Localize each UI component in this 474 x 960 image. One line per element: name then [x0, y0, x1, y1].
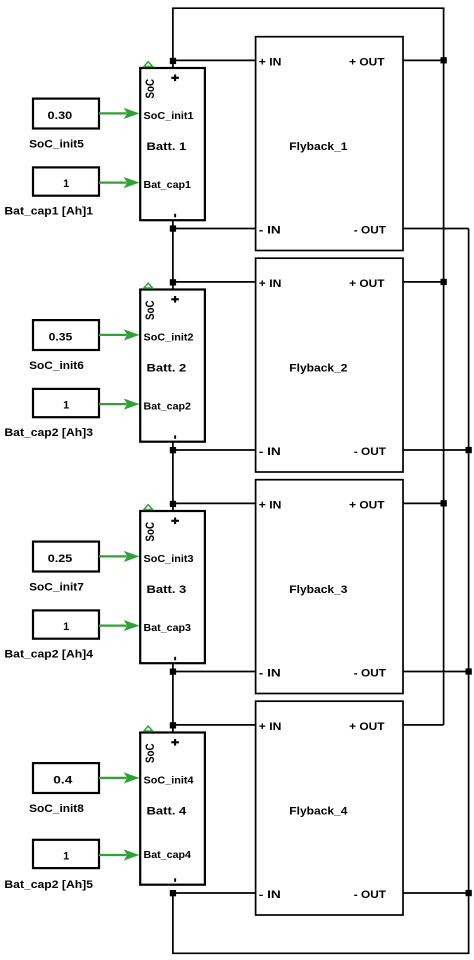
svg-text:- OUT: - OUT — [354, 889, 386, 901]
svg-text:SoC_init2: SoC_init2 — [144, 333, 194, 344]
wire: Flyback_4 - OUT to -bus — [403, 892, 469, 894]
wire: bottom net from battery stack - to -OUT bus — [172, 893, 469, 953]
svg-text:Flyback_2: Flyback_2 — [289, 363, 347, 375]
signal wire SoC_init6 to SoC_init2 — [99, 329, 140, 340]
wire: series link Batt. 2 - to next battery + — [172, 442, 174, 512]
wire: -OUT bus vertical — [468, 229, 470, 954]
svg-text:+ IN: + IN — [259, 721, 282, 733]
wire: Batt. 2 + node to Flyback_2 + IN — [173, 281, 256, 283]
Batt. 2 SoC output port (unconnected, green caret) — [144, 283, 153, 288]
wire: Flyback_1 - OUT to -bus — [403, 228, 469, 230]
signal wire SoC_init8 to SoC_init4 — [99, 772, 140, 783]
Batt. 4 - terminal label — [174, 878, 176, 882]
svg-text:SoC_init6: SoC_init6 — [29, 360, 84, 372]
svg-text:Bat_cap4: Bat_cap4 — [144, 850, 192, 861]
wire: Batt. 3 - node to Flyback_3 - IN — [173, 671, 256, 673]
battery block Batt. 4 — [140, 733, 205, 885]
svg-text:Flyback_4: Flyback_4 — [289, 806, 348, 818]
wire: series link Batt. 3 - to next battery + — [172, 663, 174, 733]
constant block Bat_cap1 [Ah]1 (value 1) — [33, 167, 99, 195]
Batt. 1 name label — [147, 141, 187, 153]
signal wire Bat_cap2 [Ah]5 to Bat_cap4 — [99, 849, 140, 860]
Flyback_3 pin label - IN — [259, 668, 281, 680]
wire: Flyback_2 - OUT to -bus — [403, 449, 469, 451]
Batt. 4 SoC pin label (rotated) — [143, 743, 157, 763]
battery block Batt. 1 — [140, 68, 205, 220]
junction: Flyback_4 - OUT on -bus — [466, 890, 472, 896]
Flyback_3 pin label + OUT — [349, 500, 385, 512]
svg-text:- OUT: - OUT — [354, 225, 386, 237]
svg-text:Bat_cap2 [Ah]4: Bat_cap2 [Ah]4 — [4, 648, 94, 660]
Flyback_3 pin label - OUT — [354, 668, 386, 680]
wire: Batt. 3 + node to Flyback_3 + IN — [173, 502, 256, 504]
svg-text:+ OUT: + OUT — [349, 278, 385, 290]
Flyback_1 name label — [289, 141, 347, 153]
wire: +OUT bus vertical — [443, 8, 445, 725]
Flyback_1 pin label - OUT — [354, 225, 386, 237]
signal wire SoC_init5 to SoC_init1 — [99, 108, 140, 119]
svg-text:Bat_cap2: Bat_cap2 — [144, 401, 192, 412]
Batt. 3 SoC output port (unconnected, green caret) — [144, 505, 153, 510]
svg-text:1: 1 — [63, 400, 69, 412]
svg-text:SoC: SoC — [143, 522, 157, 542]
Flyback_3 name label — [289, 584, 347, 596]
svg-text:Bat_cap2 [Ah]5: Bat_cap2 [Ah]5 — [4, 879, 93, 891]
converter block Flyback_4 — [256, 701, 403, 915]
junction: Flyback_2 - OUT on -bus — [466, 447, 472, 453]
constant block Bat_cap2 [Ah]5 (value 1) — [33, 840, 99, 868]
svg-text:- IN: - IN — [259, 889, 281, 901]
Flyback_4 name label — [289, 806, 348, 818]
svg-text:Bat_cap1 [Ah]1: Bat_cap1 [Ah]1 — [4, 205, 93, 217]
Batt. 3 SoC pin label (rotated) — [143, 522, 157, 542]
signal wire Bat_cap2 [Ah]4 to Bat_cap3 — [99, 620, 140, 631]
svg-text:- IN: - IN — [259, 225, 281, 237]
wire: Flyback_3 - OUT to -bus — [403, 671, 469, 673]
junction: Flyback_3 + OUT on +bus — [441, 500, 447, 506]
svg-text:0.30: 0.30 — [48, 110, 73, 122]
constant block SoC_init7 (value 0.25) — [33, 542, 99, 572]
constant block SoC_init6 (value 0.35) — [33, 320, 99, 350]
Batt. 2 + terminal label — [171, 296, 179, 303]
signal wire Bat_cap2 [Ah]3 to Bat_cap2 — [99, 399, 140, 410]
Batt. 2 pin label SoC_init2 — [144, 333, 194, 344]
signal wire SoC_init7 to SoC_init3 — [99, 551, 140, 562]
wire: Batt. 4 + node to Flyback_4 + IN — [173, 724, 256, 726]
junction: Batt. 3 - node — [170, 669, 176, 675]
junction: Flyback_1 + OUT on +bus — [441, 57, 447, 63]
svg-text:Flyback_3: Flyback_3 — [289, 584, 347, 596]
constant block SoC_init8 (value 0.4) — [33, 763, 99, 793]
Batt. 3 - terminal label — [174, 657, 176, 661]
constant block Bat_cap2 [Ah]3 (value 1) — [33, 389, 99, 417]
converter block Flyback_1 — [256, 37, 403, 251]
Batt. 4 pin label SoC_init4 — [144, 776, 194, 787]
junction: Batt. 2 + node — [170, 279, 176, 285]
svg-text:1: 1 — [63, 178, 69, 190]
svg-text:SoC_init5: SoC_init5 — [29, 139, 84, 151]
svg-text:+ IN: + IN — [259, 57, 282, 69]
svg-text:Batt. 2: Batt. 2 — [147, 363, 187, 375]
junction: Batt. 3 + node — [170, 501, 176, 507]
Batt. 4 name label — [147, 806, 188, 818]
svg-text:+ OUT: + OUT — [349, 57, 385, 69]
Flyback_4 pin label - IN — [259, 889, 281, 901]
Batt. 3 name label — [147, 584, 187, 596]
junction: Flyback_3 - OUT on -bus — [466, 668, 472, 674]
svg-text:Batt. 1: Batt. 1 — [147, 141, 187, 153]
Flyback_4 pin label + IN — [259, 721, 282, 733]
Batt. 2 pin label Bat_cap2 — [144, 401, 192, 412]
svg-text:+ OUT: + OUT — [349, 721, 385, 733]
Flyback_4 pin label + OUT — [349, 721, 385, 733]
svg-text:+ OUT: + OUT — [349, 500, 385, 512]
wire: series link Batt. 1 - to next battery + — [172, 220, 174, 290]
junction: Batt. 1 - node — [170, 225, 176, 231]
Batt. 3 pin label Bat_cap3 — [144, 623, 192, 634]
svg-text:SoC_init8: SoC_init8 — [29, 803, 84, 815]
Batt. 1 SoC pin label (rotated) — [143, 79, 157, 99]
Flyback_4 pin label - OUT — [354, 889, 386, 901]
junction: Batt. 4 + node — [170, 722, 176, 728]
svg-text:SoC: SoC — [143, 300, 157, 320]
svg-text:+ IN: + IN — [259, 500, 282, 512]
value label Bat_cap1 [Ah]1 — [4, 205, 93, 217]
svg-text:- OUT: - OUT — [354, 446, 386, 458]
wire: Flyback_3 + OUT to +bus — [403, 502, 444, 504]
svg-text:SoC_init1: SoC_init1 — [144, 111, 194, 122]
svg-text:SoC_init7: SoC_init7 — [29, 582, 84, 594]
Batt. 2 name label — [147, 363, 187, 375]
svg-text:+ IN: + IN — [259, 278, 282, 290]
svg-text:Bat_cap1: Bat_cap1 — [144, 180, 192, 191]
converter block Flyback_3 — [256, 480, 403, 694]
svg-text:Batt. 4: Batt. 4 — [147, 806, 188, 818]
battery block Batt. 3 — [140, 511, 205, 663]
wire: Batt. 1 + node to Flyback_1 + IN — [173, 59, 256, 61]
wire: Batt. 1 - node to Flyback_1 - IN — [173, 228, 256, 230]
svg-text:Batt. 3: Batt. 3 — [147, 584, 187, 596]
Flyback_1 pin label - IN — [259, 225, 281, 237]
svg-text:0.35: 0.35 — [49, 332, 73, 344]
svg-text:1: 1 — [63, 850, 69, 862]
Batt. 2 - terminal label — [174, 435, 176, 439]
value label Bat_cap2 [Ah]3 — [4, 427, 93, 439]
Flyback_3 pin label + IN — [259, 500, 282, 512]
constant block Bat_cap2 [Ah]4 (value 1) — [33, 610, 99, 638]
signal wire Bat_cap1 [Ah]1 to Bat_cap1 — [99, 177, 140, 188]
value label SoC_init8 — [29, 803, 84, 815]
wire: Batt. 2 - node to Flyback_2 - IN — [173, 449, 256, 451]
wire: Batt. 4 - node to Flyback_4 - IN — [173, 892, 256, 894]
Batt. 1 SoC output port (unconnected, green caret) — [144, 62, 153, 67]
svg-text:- IN: - IN — [259, 668, 281, 680]
wire: Flyback_4 + OUT to +bus — [403, 724, 444, 726]
svg-text:SoC_init4: SoC_init4 — [144, 776, 194, 787]
svg-text:Bat_cap2 [Ah]3: Bat_cap2 [Ah]3 — [4, 427, 93, 439]
Flyback_2 pin label - IN — [259, 446, 281, 458]
Batt. 1 pin label SoC_init1 — [144, 111, 194, 122]
wire: top net from battery stack + to +OUT bus — [172, 8, 444, 69]
wire: Flyback_2 + OUT to +bus — [403, 281, 444, 283]
svg-text:0.4: 0.4 — [53, 775, 73, 787]
Flyback_2 pin label - OUT — [354, 446, 386, 458]
Batt. 1 + terminal label — [171, 75, 179, 82]
Flyback_2 pin label + IN — [259, 278, 282, 290]
svg-text:Bat_cap3: Bat_cap3 — [144, 623, 192, 634]
converter block Flyback_2 — [256, 258, 403, 472]
Flyback_1 pin label + IN — [259, 57, 282, 69]
Batt. 3 + terminal label — [171, 518, 179, 525]
battery block Batt. 2 — [140, 290, 205, 442]
Batt. 1 pin label Bat_cap1 — [144, 180, 192, 191]
junction: Flyback_2 + OUT on +bus — [441, 279, 447, 285]
svg-text:Flyback_1: Flyback_1 — [289, 141, 347, 153]
Batt. 2 SoC pin label (rotated) — [143, 300, 157, 320]
value label Bat_cap2 [Ah]4 — [4, 648, 94, 660]
Flyback_2 pin label + OUT — [349, 278, 385, 290]
svg-text:- IN: - IN — [259, 446, 281, 458]
svg-text:SoC: SoC — [143, 743, 157, 763]
value label SoC_init6 — [29, 360, 84, 372]
svg-text:0.25: 0.25 — [48, 553, 73, 565]
wire: Flyback_1 + OUT to +bus — [403, 59, 444, 61]
Batt. 1 - terminal label — [174, 214, 176, 218]
value label Bat_cap2 [Ah]5 — [4, 879, 93, 891]
junction: Batt. 1 + node — [170, 58, 176, 64]
junction: Batt. 4 - node — [170, 890, 176, 896]
Batt. 4 pin label Bat_cap4 — [144, 850, 192, 861]
value label SoC_init7 — [29, 582, 84, 594]
value label SoC_init5 — [29, 139, 84, 151]
junction: Batt. 2 - node — [170, 447, 176, 453]
Flyback_2 name label — [289, 363, 347, 375]
svg-text:1: 1 — [63, 621, 69, 633]
Batt. 4 + terminal label — [171, 739, 179, 746]
svg-text:- OUT: - OUT — [354, 668, 386, 680]
svg-text:SoC: SoC — [143, 79, 157, 99]
constant block SoC_init5 (value 0.30) — [33, 99, 99, 129]
Batt. 3 pin label SoC_init3 — [144, 554, 194, 565]
Flyback_1 pin label + OUT — [349, 57, 385, 69]
Batt. 4 SoC output port (unconnected, green caret) — [144, 726, 153, 731]
svg-text:SoC_init3: SoC_init3 — [144, 554, 194, 565]
